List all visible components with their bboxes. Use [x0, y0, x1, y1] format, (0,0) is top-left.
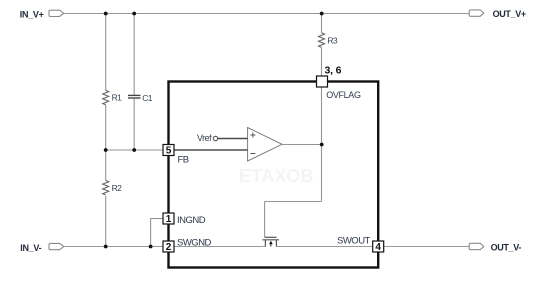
resistor R1 [103, 90, 109, 104]
svg-text:Vref: Vref [197, 133, 212, 143]
watermark [239, 166, 314, 186]
wire pin 4 to OUT_V- [384, 246, 469, 248]
wire vertical C1 to FB node [133, 99, 135, 150]
pin 3,6 OVFLAG [317, 64, 361, 100]
transistor Q1 (N-MOSFET) [262, 237, 279, 246]
node IN_V+/R1 [104, 12, 108, 16]
svg-text:R3: R3 [327, 36, 338, 46]
svg-text:IN_V+: IN_V+ [20, 10, 44, 20]
wire pin 3,6 down to op-amp output node [321, 87, 323, 145]
wire top IN_V+ to OUT_V+ [64, 13, 470, 15]
wire gate vertical [264, 202, 266, 238]
wire FB horizontal [106, 149, 163, 151]
op-amp U1A [248, 128, 282, 162]
svg-text:SWGND: SWGND [177, 238, 212, 249]
node IN_V+/C1 [132, 12, 136, 16]
pin 1 INGND [163, 213, 206, 226]
svg-text:OUT_V-: OUT_V- [491, 243, 522, 253]
wire vertical R2 to bottom [105, 196, 107, 247]
resistor R2 [103, 181, 109, 195]
node op-amp output [320, 143, 324, 147]
svg-text:FB: FB [178, 155, 189, 166]
svg-text:INGND: INGND [177, 215, 206, 226]
node IN_V-/INGND [149, 245, 153, 249]
node FB/C1 [132, 148, 136, 152]
pin 2 SWGND [163, 238, 212, 254]
svg-text:OUT_V+: OUT_V+ [493, 9, 526, 19]
svg-text:4: 4 [375, 242, 381, 253]
pin 5 FB [163, 145, 189, 166]
svg-text:IN_V-: IN_V- [20, 243, 41, 253]
wire mosfet to pin 4 [276, 246, 372, 248]
port OUT_V+ [469, 9, 526, 19]
wire bottom IN_V- to pin 2 [64, 246, 163, 248]
wire op-amp minus input from FB pin [174, 149, 248, 151]
wire pin 1 branch [151, 218, 163, 220]
wire pin 2 to mosfet [174, 246, 265, 248]
wire R3 to pin 3,6 [321, 48, 323, 76]
port OUT_V- [469, 243, 521, 253]
wire op-amp plus input from Vref [218, 138, 248, 140]
node OUT_V+/R3 [320, 12, 324, 16]
svg-text:5: 5 [166, 146, 172, 157]
wire op-amp output [282, 144, 322, 146]
wire vertical between R1 and R2 [105, 105, 107, 181]
wire vertical R3 branch from top [321, 14, 323, 33]
port IN_V- [20, 243, 64, 253]
pin 4 SWOUT [337, 235, 384, 253]
wire vertical R1/R2 branch upper [105, 14, 107, 91]
Vref terminal [213, 136, 217, 140]
svg-text:2: 2 [166, 242, 172, 253]
svg-text:R2: R2 [112, 183, 123, 193]
svg-text:C1: C1 [142, 93, 153, 103]
svg-text:R1: R1 [112, 93, 123, 103]
svg-text:OVFLAG: OVFLAG [326, 90, 361, 100]
IC U1 body [169, 82, 379, 268]
wire output node down [321, 145, 323, 202]
resistor R3 [319, 33, 325, 47]
port IN_V+ [20, 10, 64, 20]
capacitor C1 [128, 95, 141, 98]
wire horizontal to gate column [265, 201, 322, 203]
wire vertical C1 branch upper [133, 14, 135, 95]
svg-text:SWOUT: SWOUT [337, 235, 371, 246]
svg-text:1: 1 [166, 214, 172, 225]
node FB/R1R2 [104, 148, 108, 152]
svg-text:3, 6: 3, 6 [325, 64, 342, 76]
node IN_V-/R2 [104, 245, 108, 249]
svg-text:ЕТАХОВ: ЕТАХОВ [239, 166, 314, 186]
